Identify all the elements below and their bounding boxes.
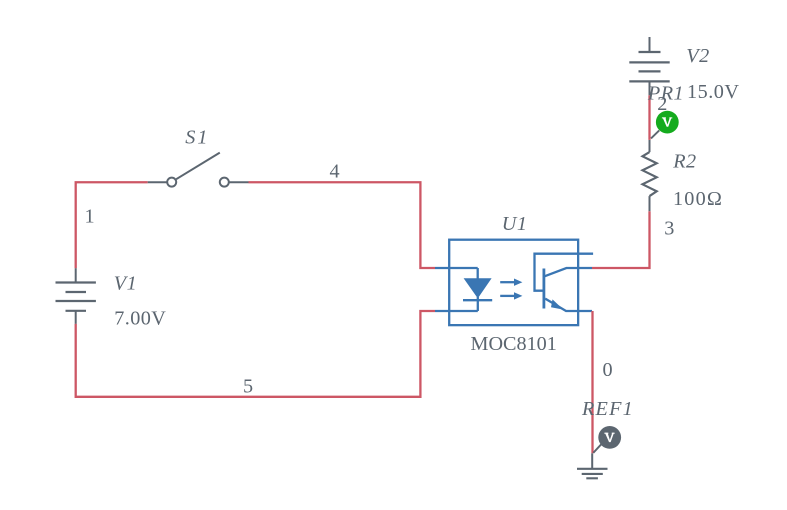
svg-text:V1: V1 [114,272,137,294]
battery V1 plate 1 long [56,281,96,283]
ground bar 2 [582,473,603,475]
switch S1 right lead [229,181,248,183]
svg-text:5: 5 [243,375,253,397]
resistor R2 top lead [649,140,651,152]
probe REF1 tail [593,444,601,453]
svg-text:15.0V: 15.0V [687,81,739,103]
wire net 4 (switch to U1 anode pin) [249,182,436,268]
wire net 5 (battery minus to U1 cathode pin) [76,311,435,397]
U1 LED cathode bar [463,299,492,301]
battery V1 top stub [75,268,77,282]
U1 base pin 6 line [535,254,594,291]
U1 anode pin line [435,267,478,269]
svg-text:U1: U1 [502,213,528,235]
opto U1 box [449,240,578,325]
svg-text:0: 0 [603,359,613,381]
source V2 top pin stub [649,37,651,52]
source V2 bottom stub [649,81,651,95]
wire net 1 (battery V1 top to switch) [76,182,148,268]
svg-text:MOC8101: MOC8101 [471,333,557,355]
svg-text:3: 3 [664,218,674,240]
svg-text:V2: V2 [686,45,709,67]
battery V1 plate 3 long [56,300,96,302]
wire net 2 (V2 to R2) [648,95,650,140]
U1 LED cathode vertical [477,297,479,311]
source V2 plate 2 long [629,61,669,63]
svg-text:PR1: PR1 [647,83,684,105]
U1 light arrow 2 [500,295,514,297]
resistor R2 bottom lead [649,196,651,211]
battery V1 plate 2 short [66,291,87,293]
svg-text:R2: R2 [672,151,696,173]
battery V1 bottom stub [75,311,77,324]
ground bar 3 [586,477,598,479]
U1 cathode pin line [435,310,478,312]
U1 LED anode vertical [477,268,479,279]
svg-text:4: 4 [330,161,340,183]
U1 transistor emitter [545,299,592,311]
switch S1 left contact circle [167,178,176,187]
svg-text:1: 1 [85,205,95,227]
wire net 0 (emitter to ground) [591,311,593,453]
ground bar 1 [577,468,608,470]
svg-text:7.00V: 7.00V [114,308,166,330]
probe PR1 circle [656,111,679,134]
switch S1 left lead [148,181,168,183]
probe PR1 letter [662,117,672,126]
U1 light arrow 1 [500,281,514,283]
U1 transistor collector [545,268,593,276]
U1 LED triangle [464,278,492,298]
svg-text:REF1: REF1 [581,398,634,420]
probe REF1 circle [598,426,621,449]
U1 emitter arrowhead [551,299,563,309]
probe PR1 tail [651,130,659,138]
switch S1 right contact circle [220,178,229,187]
source V2 plate 3 short [639,70,661,72]
wire net 3 (collector to R2) [592,211,650,268]
battery V1 plate 4 short [66,310,87,312]
svg-text:100Ω: 100Ω [673,188,723,210]
source V2 plate 4 long [629,80,669,82]
probe REF1 letter [604,433,614,442]
resistor R2 zigzag [643,152,657,196]
source V2 plate 1 short [639,51,661,53]
U1 transistor base bar [543,269,546,309]
ground stub [591,453,593,469]
svg-text:S1: S1 [185,126,209,148]
switch S1 arm [176,153,220,180]
